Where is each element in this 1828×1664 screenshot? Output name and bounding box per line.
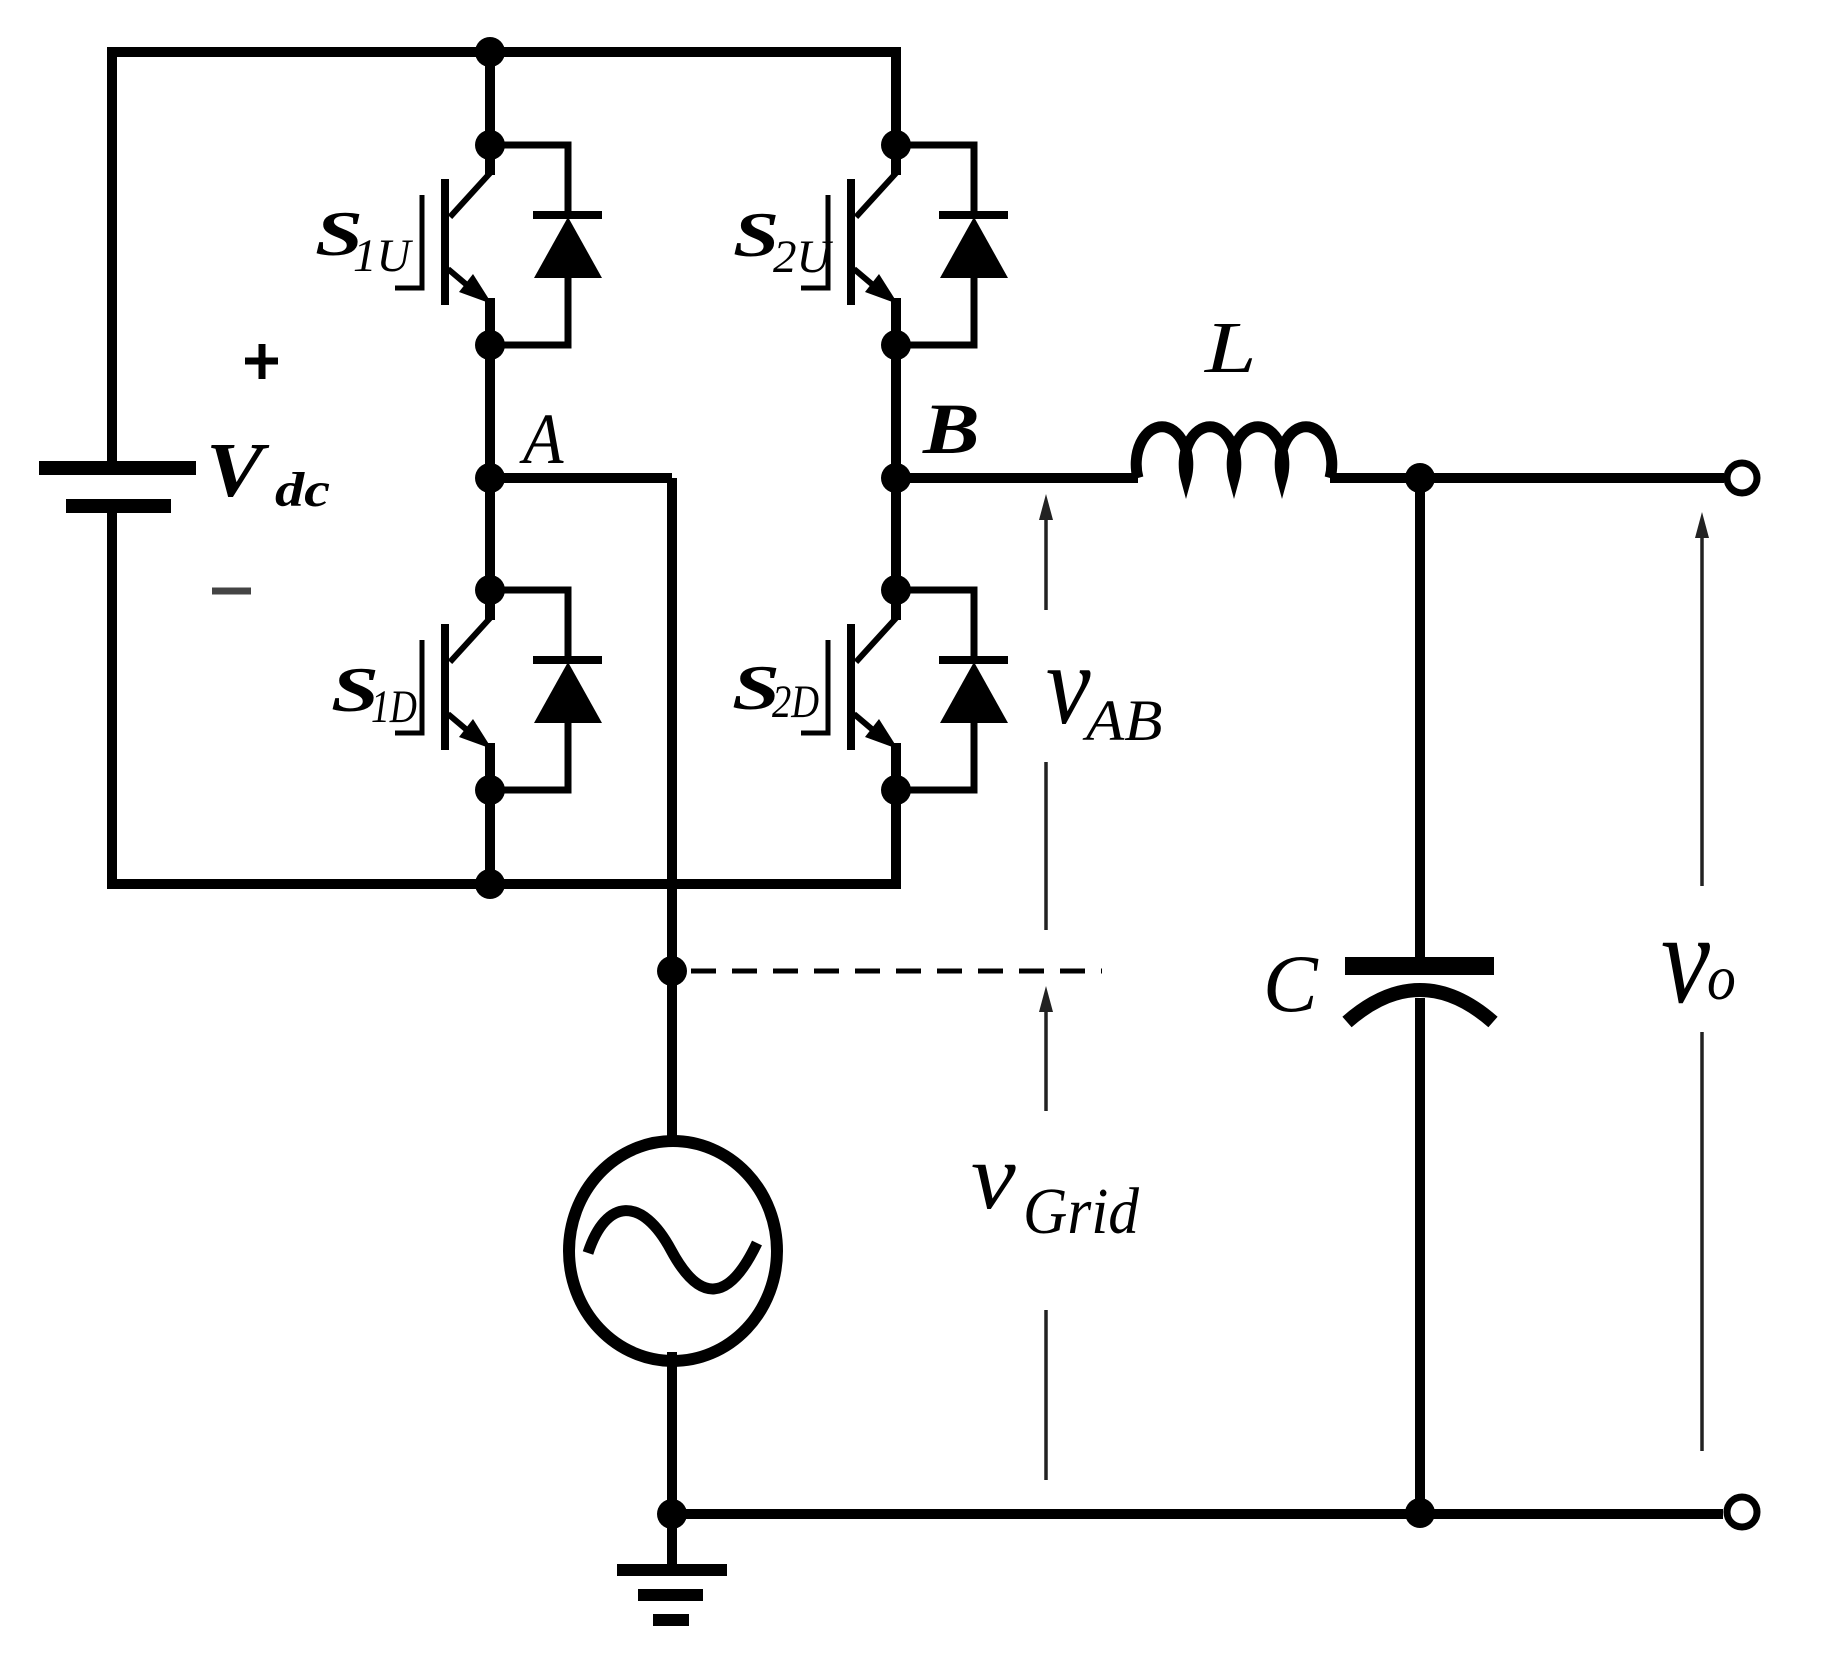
node junction capacitor / bottom rail (1405, 1498, 1435, 1528)
svg-text:B: B (922, 390, 980, 470)
wire left side below battery and bottom dc rail (112, 512, 896, 884)
terminal bottom output (1727, 1497, 1757, 1527)
transistor S1U with antiparallel diode (395, 130, 602, 360)
node junction dashed reference (657, 956, 687, 986)
node S1D collector (475, 575, 505, 605)
svg-text:2D: 2D (772, 677, 819, 728)
inductor L (1136, 427, 1332, 478)
svg-text:AB: AB (1082, 689, 1163, 753)
transistor S1D with antiparallel diode (395, 575, 602, 805)
wire from top rail to S1U (485, 48, 495, 146)
transistor S1D (395, 588, 492, 792)
svg-text:dc: dc (275, 462, 330, 517)
svg-text:L: L (1204, 308, 1257, 388)
diode across S1D (490, 590, 602, 790)
ground (617, 1514, 727, 1620)
svg-text:o: o (1707, 943, 1736, 1013)
wire grid branch vertical crossing bottom rail (667, 478, 677, 1150)
transistor S1U (395, 143, 492, 347)
battery Vdc (39, 468, 196, 506)
transistor S2D (801, 588, 898, 792)
svg-text:C: C (1263, 938, 1319, 1029)
diode across S1U (490, 145, 602, 345)
node B junction dot (881, 463, 911, 493)
svg-text:2U: 2U (773, 231, 834, 283)
transistor S2U (801, 143, 898, 347)
wire bottom output rail (672, 1509, 1723, 1519)
wire node A to grid branch (485, 473, 672, 483)
wire S2U to S2D through node B (891, 344, 901, 591)
node S2U emitter (881, 330, 911, 360)
dashed reference line (691, 969, 1102, 974)
wire S1D to bottom rail (485, 789, 495, 884)
wire top rail and left side down to battery (112, 52, 896, 463)
wire node B to inductor (891, 473, 1138, 483)
node S1U emitter (475, 330, 505, 360)
node junction top rail / S1U leg (475, 37, 505, 67)
arrow vAB (1039, 494, 1053, 930)
node S1U collector (475, 130, 505, 160)
arrow vGrid (1039, 986, 1053, 1480)
terminal top output (1727, 463, 1757, 493)
transistor S2U with antiparallel diode (801, 130, 1008, 360)
svg-text:v: v (1661, 887, 1711, 1030)
capacitor C (1345, 966, 1494, 1022)
wire capacitor top (1415, 478, 1425, 959)
node junction inductor / capacitor (1405, 463, 1435, 493)
wire S1U to S1D through node A (485, 344, 495, 591)
node S1D emitter (475, 775, 505, 805)
ac source sine wave (588, 1211, 757, 1289)
transistor S2D with antiparallel diode (801, 575, 1008, 805)
svg-text:1D: 1D (371, 681, 417, 733)
label minus sign (212, 588, 251, 595)
diode across S2D (896, 590, 1008, 790)
node junction S1D leg / bottom rail (475, 869, 505, 899)
svg-text:Grid: Grid (1023, 1174, 1140, 1248)
svg-text:A: A (519, 398, 564, 478)
node A junction dot (475, 463, 505, 493)
svg-text:v: v (1046, 622, 1091, 748)
label plus sign (245, 344, 278, 379)
wire inductor to output terminal (1330, 473, 1724, 483)
arrow vo (1695, 512, 1709, 1451)
wire capacitor bottom (1415, 998, 1425, 1514)
node S2U collector (881, 130, 911, 160)
wire ac source to bottom node (667, 1352, 677, 1514)
node junction ground / output return (657, 1499, 687, 1529)
svg-text:v: v (971, 1125, 1016, 1229)
node S2D collector (881, 575, 911, 605)
node S2D emitter (881, 775, 911, 805)
diode across S2U (896, 145, 1008, 345)
svg-text:V: V (206, 427, 270, 513)
svg-text:1U: 1U (353, 230, 414, 282)
ac source vGrid circle (569, 1141, 777, 1361)
